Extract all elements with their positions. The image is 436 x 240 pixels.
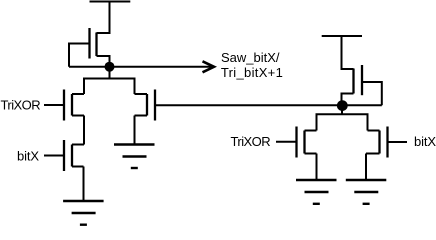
svg-text:TriXOR: TriXOR — [1, 98, 41, 113]
svg-text:Saw_bitX/: Saw_bitX/ — [221, 50, 280, 65]
svg-text:bitX: bitX — [414, 134, 436, 149]
svg-text:TriXOR: TriXOR — [231, 134, 271, 149]
svg-text:Tri_bitX+1: Tri_bitX+1 — [221, 65, 283, 80]
svg-text:bitX: bitX — [17, 148, 39, 163]
